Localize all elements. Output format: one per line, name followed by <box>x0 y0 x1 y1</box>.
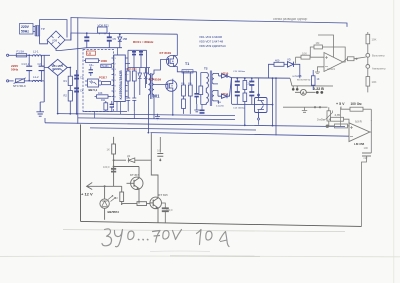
inductor L1-2 <box>32 68 48 83</box>
IC top/bottom leads <box>117 48 121 112</box>
ground symbol small under T1g <box>155 114 160 120</box>
resistor R6 blue box <box>101 64 112 67</box>
svg-text:C15 1000мк: C15 1000мк <box>233 71 245 73</box>
wire Qp2 collector up to diode line <box>151 133 158 197</box>
bridge rectifier VD8-VD11 (top) <box>47 31 71 51</box>
diode VD10 output <box>219 74 232 78</box>
svg-text:вольтметр: вольтметр <box>297 78 311 82</box>
earth ground symbol <box>36 81 44 116</box>
bus 3 <box>45 123 345 127</box>
svg-text:0,1: 0,1 <box>157 148 161 152</box>
svg-text:50Hz: 50Hz <box>11 68 19 72</box>
svg-text:001: 001 <box>153 94 161 99</box>
resistor R14 vertical <box>132 71 136 81</box>
transistor Q1 mosfet <box>166 34 184 72</box>
wire: top border of schematic <box>71 18 347 27</box>
diode Dp1 <box>114 159 152 161</box>
svg-text:VD8-VD9 КД2997АС: VD8-VD9 КД2997АС <box>199 44 226 48</box>
jack dots right of ammeter <box>316 91 323 94</box>
svg-text:10K: 10K <box>372 80 377 84</box>
transformer TR1 <box>35 26 39 37</box>
op-amp U4 triangle <box>324 53 343 72</box>
ammeter A circle <box>295 89 316 95</box>
svg-text:TP: TP <box>41 27 45 31</box>
resistor R8 <box>102 82 111 85</box>
plug X1 220V box <box>20 24 36 35</box>
capacitor C7 bold <box>139 52 143 55</box>
capacitor C6 bold <box>132 52 136 55</box>
capacitor C10 vertical <box>110 101 114 111</box>
wire feedback <box>310 47 345 62</box>
capacitor Cp1 bold <box>111 169 116 172</box>
resistor Rf 1M <box>314 45 322 49</box>
resistor R13 vertical <box>126 71 130 81</box>
wire verticals cluster <box>128 50 147 84</box>
svg-text:ВКЛЮЧ: ВКЛЮЧ <box>108 210 119 214</box>
svg-text:C14 1000мк: C14 1000мк <box>233 108 245 110</box>
svg-text:mkf: mkf <box>364 157 368 160</box>
faint scan streak line <box>0 255 400 258</box>
svg-text:Д9: Д9 <box>127 154 131 158</box>
svg-text:NTC 5D-9: NTC 5D-9 <box>13 84 26 88</box>
svg-text:KT 815: KT 815 <box>130 173 140 177</box>
svg-text:2K: 2K <box>248 83 251 86</box>
wire LED drop <box>104 186 106 199</box>
wire: secondary return vertical <box>231 78 233 105</box>
svg-text:VD8: VD8 <box>52 39 58 43</box>
svg-text:1K: 1K <box>317 78 320 81</box>
terminal circle V <box>366 32 370 92</box>
svg-text:C1 0,1: C1 0,1 <box>22 62 30 66</box>
svg-text:F1 5A: F1 5A <box>17 50 25 54</box>
svg-text:100 Ом: 100 Ом <box>351 102 363 106</box>
terminal input L <box>7 54 17 56</box>
faint scanner edge line right <box>392 0 395 283</box>
transistor Qp1 <box>131 177 143 189</box>
capacitor C1 <box>26 54 32 81</box>
wire horiz y67.6 <box>128 67 150 69</box>
wire: twin verticals to buses <box>272 77 277 135</box>
diode VD11 output <box>218 78 232 99</box>
wire: stubs box bottom to buses <box>95 111 135 118</box>
bus 1 <box>58 114 235 116</box>
svg-text:+ 12 V: + 12 V <box>81 191 93 196</box>
svg-text:R13 R14: R13 R14 <box>127 68 137 71</box>
resistor R21 box above rail <box>98 27 108 33</box>
svg-text:VD1-VD2 1N4006: VD1-VD2 1N4006 <box>199 35 223 39</box>
svg-text:U2: U2 <box>88 51 92 55</box>
snubber column R18 <box>189 72 191 114</box>
dots ... <box>139 239 148 241</box>
letter А <box>220 232 230 247</box>
wire +5V stub <box>341 107 350 110</box>
svg-text:C5: C5 <box>113 37 117 41</box>
digit 0 <box>128 231 134 239</box>
svg-text:VD: VD <box>287 58 291 62</box>
IC pin ticks left <box>112 48 128 112</box>
wire: cap bank return to bus <box>244 104 246 126</box>
svg-text:0,1x250: 0,1x250 <box>216 106 225 108</box>
digit 7 <box>153 231 161 243</box>
wire: output rail y78 <box>232 77 291 80</box>
left border vertical x80.5 <box>80 124 82 221</box>
svg-text:100,0: 100,0 <box>103 165 110 169</box>
svg-text:KD226: KD226 <box>53 67 62 71</box>
diode VD12 <box>288 62 294 67</box>
faint pencil smudge top of handwriting <box>150 250 210 253</box>
bridge rectifier VD1-VD4 <box>48 59 70 113</box>
svg-text:KT 815: KT 815 <box>159 193 169 197</box>
svg-text:10K: 10K <box>372 38 377 42</box>
svg-text:RC01 = 88kHz: RC01 = 88kHz <box>133 40 154 44</box>
wire noninv input <box>318 67 325 72</box>
wire Qp2 emitter down <box>157 209 159 223</box>
varistor RU1 <box>14 78 33 84</box>
wire LED to bottom <box>104 208 106 220</box>
svg-text:ш 3-22B: ш 3-22B <box>293 75 302 78</box>
resistor 10K lower right <box>366 77 370 87</box>
svg-text:Вольтметр: Вольтметр <box>372 54 385 58</box>
faint pencil ruler line bottom <box>63 230 345 232</box>
svg-text:C2: C2 <box>38 62 42 66</box>
primary feed wires <box>201 73 207 105</box>
wire feedback <box>370 109 372 132</box>
letter З <box>102 229 112 246</box>
resistor R20 vertical blue right <box>311 70 315 90</box>
resistor on feed <box>199 86 203 95</box>
svg-text:400: 400 <box>275 59 280 63</box>
wire: output top branch <box>269 62 300 79</box>
svg-text:TL431: TL431 <box>102 65 110 68</box>
svg-text:+ 5 V: + 5 V <box>336 102 345 106</box>
ground small <box>302 107 307 112</box>
red label U2 box <box>87 51 96 55</box>
wire: left border vertical x71 +rail <box>70 18 72 40</box>
bus 2 <box>78 118 235 120</box>
vertical x340 pencil <box>340 107 342 126</box>
caps C8 C9 small horizontal <box>126 95 130 104</box>
IC pin ticks right <box>125 58 127 97</box>
wire down right border <box>362 159 367 227</box>
capacitor Cp3 top right <box>159 137 161 160</box>
inductor L1-1 <box>32 55 50 68</box>
resistor Rp2 vertical <box>121 186 123 205</box>
svg-text:L1-1: L1-1 <box>33 49 39 53</box>
resistor Rp3 horizontal <box>137 202 147 206</box>
wire: box bottom rail <box>83 110 127 112</box>
resistor R16 vertical <box>244 78 246 104</box>
capacitor C5 (bold electrolytic) <box>108 33 110 48</box>
bold cap lower feed <box>200 110 205 113</box>
svg-text:VD1-VD4: VD1-VD4 <box>52 64 64 68</box>
LED Dled <box>100 199 109 208</box>
+12V arrow <box>87 183 122 190</box>
digit 1 <box>197 230 202 245</box>
handwriting ЗУ 0...70V 10 А (pencil paths) <box>102 229 229 247</box>
wire: +310V rail y33 <box>60 33 177 51</box>
resistor Rin 10K <box>301 55 310 59</box>
main transformer T2 <box>206 71 218 107</box>
wire: output lower rail y104.5 <box>232 103 273 105</box>
capacitor C2 <box>39 55 45 80</box>
trimmer RP <box>328 107 330 127</box>
svg-text:LM 358: LM 358 <box>354 142 365 146</box>
svg-text:R2: R2 <box>64 94 68 98</box>
wire: bus3 left drop <box>44 118 46 123</box>
zener VD9 vertical <box>119 34 121 48</box>
bottom sloped line <box>81 221 362 226</box>
svg-text:T1: T1 <box>185 62 189 66</box>
T2 secondary leads <box>214 74 219 104</box>
svg-text:BB 5,1: BB 5,1 <box>89 88 98 92</box>
resistor R19 horizontal <box>274 62 284 66</box>
svg-text:R11: R11 <box>101 99 106 102</box>
resistor 100om <box>350 107 363 111</box>
svg-text:PC817: PC817 <box>99 76 107 80</box>
resistor Rp1 1K vertical <box>113 137 115 186</box>
junction dots on buses <box>57 113 59 115</box>
wire: junction vertical x44.2 <box>43 68 45 81</box>
capacitor Cp2 bold <box>164 206 166 215</box>
wire Qp1 emitter to Rp3 <box>122 194 139 206</box>
svg-text:1K: 1K <box>107 148 111 152</box>
label winding box 1-0.8 <box>182 70 193 73</box>
svg-text:15B: 15B <box>123 37 128 41</box>
svg-text:схема разводки однокр: схема разводки однокр <box>273 17 308 21</box>
IC U1 PWM controller <box>114 55 126 102</box>
wire: transformer to bridge rect loop <box>40 20 67 44</box>
svg-text:100: 100 <box>364 146 369 150</box>
svg-text:KA5500BA/3842B: KA5500BA/3842B <box>119 70 123 100</box>
aux supply components on +rail y33 <box>84 27 122 48</box>
svg-text:4,7K: 4,7K <box>335 113 341 117</box>
resistor 3k horizontal <box>331 117 344 121</box>
wire: IC right pin stubs <box>128 58 130 75</box>
node A junction bridge1 out <box>70 33 72 40</box>
digit 0 <box>163 231 169 239</box>
junction dots rail <box>86 32 88 34</box>
resistor R11 vertical <box>104 101 108 111</box>
dashed feedback box <box>83 50 114 112</box>
svg-text:LM324: LM324 <box>327 67 335 71</box>
bus 4 <box>90 128 256 130</box>
diode VD6 vertical <box>145 68 147 88</box>
snubber column R17 <box>182 72 207 114</box>
bus 5 <box>151 133 350 137</box>
letter У <box>114 230 122 247</box>
output resistor <box>343 59 348 62</box>
svg-text:0-22 B: 0-22 B <box>313 87 324 91</box>
op-amp U5 triangle <box>349 123 370 142</box>
wire: second left border vertical x78 <box>77 18 79 124</box>
wire pencil rail y107 left <box>283 106 328 108</box>
wire: output rail step to jacks (pencil) <box>290 78 333 90</box>
wire: big pencil loop bottom <box>81 124 362 226</box>
wire supply <box>318 35 334 57</box>
capacitor C4 (bold electrolytic) <box>86 33 88 48</box>
svg-text:R1: R1 <box>64 79 68 83</box>
optocoupler U3 <box>85 79 101 87</box>
filter column R1 C3 <box>68 67 79 115</box>
svg-text:VD8 R21: VD8 R21 <box>98 24 110 28</box>
svg-text:Амперметр: Амперметр <box>372 67 386 71</box>
svg-text:1M: 1M <box>316 41 321 45</box>
wire Qp1 collector up <box>114 167 139 172</box>
resistor 10K top right <box>366 34 370 44</box>
svg-text:100,0: 100,0 <box>166 208 173 212</box>
svg-text:50Hz: 50Hz <box>21 29 29 33</box>
wire: relay feed from rail <box>258 78 260 93</box>
svg-text:L1-2: L1-2 <box>33 75 39 79</box>
wire right column <box>367 32 369 92</box>
svg-text:0,5 R: 0,5 R <box>355 119 362 123</box>
svg-text:100K: 100K <box>101 59 108 63</box>
svg-text:VD5-VD7 1N47-48: VD5-VD7 1N47-48 <box>199 40 223 44</box>
capacitor C3a <box>89 67 93 77</box>
svg-text:10K: 10K <box>302 51 307 55</box>
resistor R5 <box>84 59 100 63</box>
transistor Q2 mosfet <box>165 79 177 115</box>
wire: aux low rail y47.5 <box>60 48 122 51</box>
svg-text:A: A <box>302 91 305 95</box>
svg-text:C3+: C3+ <box>89 64 94 67</box>
svg-text:KT 8109: KT 8109 <box>150 77 162 81</box>
capacitor bank C14 <box>251 78 253 104</box>
snubber cap bold <box>194 94 198 97</box>
fuse F1 <box>16 54 32 57</box>
diode VD5 vertical <box>139 68 141 95</box>
transistor Qp2 <box>150 197 162 209</box>
svg-text:10K: 10K <box>98 92 103 95</box>
letter V <box>173 230 182 240</box>
gate drive transformer T1g <box>148 60 166 133</box>
T1g leads <box>148 60 166 133</box>
resistor r2 horizontal <box>335 124 348 128</box>
ground symbol small under snubber <box>194 104 199 112</box>
relay K1 4-terminal box <box>255 94 268 125</box>
wire output down to cap <box>367 132 372 159</box>
svg-text:1K: 1K <box>115 196 118 200</box>
svg-text:3 кОм: 3 кОм <box>317 117 325 121</box>
svg-text:T2: T2 <box>204 67 208 71</box>
digit 0 <box>206 231 212 240</box>
resistor R10 <box>95 95 112 98</box>
terminal input N <box>7 80 14 82</box>
IC pin numbers <box>115 58 117 99</box>
capacitor bank C15 <box>235 77 255 104</box>
svg-text:KT 8109: KT 8109 <box>160 51 172 55</box>
